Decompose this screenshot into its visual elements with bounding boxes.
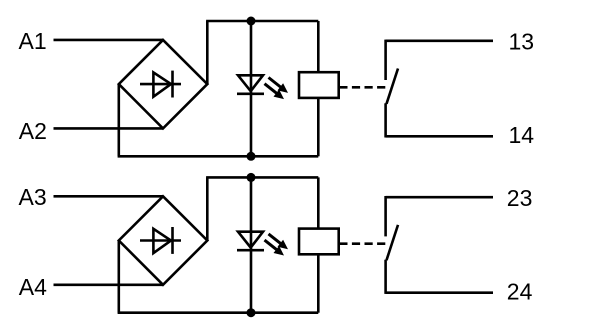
bridge rectifier BR2 diamond outline (119, 196, 208, 284)
LED LED2 emission arrow 1 (269, 234, 289, 249)
junction dot bottom rail / LED branch (247, 152, 256, 161)
svg-text:23: 23 (507, 185, 533, 211)
junction dot bottom rail channel 2 (247, 308, 256, 317)
LED LED2 triangle (238, 232, 263, 248)
relay coil K2 (299, 229, 339, 255)
junction dot top rail channel 2 (247, 173, 256, 182)
LED LED1 emission arrow 1 (269, 78, 289, 93)
wire A3 to bridge top vertex (54, 195, 164, 198)
wire bridge left vertex down channel 2 (118, 241, 121, 313)
wire relay branch lower (317, 98, 320, 156)
wire bridge right vertex up to top rail (206, 21, 209, 84)
contact fixed upper lead channel 2 (384, 196, 387, 236)
svg-text:A3: A3 (19, 184, 47, 210)
svg-text:13: 13 (509, 28, 535, 54)
diode D2 inside bridge BR2 (140, 227, 181, 254)
contact movable blade 23-24 (387, 225, 399, 260)
wire LED branch vertical (250, 21, 253, 156)
LED LED1 triangle (238, 75, 263, 91)
LED LED2 emission arrow 2 (265, 240, 285, 255)
svg-text:A4: A4 (19, 274, 47, 300)
relay coil K1 (299, 72, 339, 98)
diode D1 inside bridge BR1 (140, 71, 181, 98)
wire bridge right vertex up to top rail channel 2 (206, 177, 209, 240)
contact fixed upper lead (384, 40, 387, 80)
wire top rail channel 1 (206, 20, 318, 23)
wire LED branch vertical channel 2 (250, 177, 253, 312)
wire contact 13 horizontal (386, 39, 493, 42)
wire contact 23 horizontal (386, 196, 493, 199)
junction dot top rail / LED branch (247, 17, 256, 26)
wire bridge left vertex down (118, 84, 121, 156)
LED LED1 emission arrow 2 (265, 84, 285, 99)
LED LED2 cathode bar (237, 249, 264, 252)
wire A1 to bridge top vertex (54, 39, 164, 42)
contact lower lead (384, 103, 387, 137)
wire A4 to bridge bottom vertex (54, 283, 164, 286)
svg-text:A1: A1 (19, 28, 47, 54)
LED LED1 cathode bar (237, 93, 264, 96)
wire contact 24 horizontal (386, 291, 493, 294)
contact lower lead channel 2 (384, 260, 387, 294)
svg-text:24: 24 (507, 279, 533, 305)
svg-text:14: 14 (509, 122, 535, 148)
bridge rectifier BR1 diamond outline (119, 40, 208, 128)
wire bottom rail channel 1 (118, 155, 319, 158)
wire A2 to bridge bottom vertex (54, 127, 164, 130)
wire relay branch upper channel 2 (317, 177, 320, 228)
wire bottom rail channel 2 (118, 311, 319, 314)
wire top rail channel 2 (206, 176, 318, 179)
svg-text:A2: A2 (19, 118, 47, 144)
wire contact 14 horizontal (386, 135, 493, 138)
dashed actuator link K1 to contact (339, 86, 387, 89)
contact movable blade 13-14 (387, 69, 399, 104)
wire relay branch upper (317, 21, 320, 72)
wire relay branch lower channel 2 (317, 254, 320, 312)
dashed actuator link K2 to contact (339, 242, 387, 245)
